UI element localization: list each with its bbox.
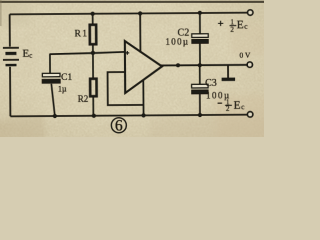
node top rail R1 — [91, 12, 95, 16]
svg-text:Ec: Ec — [234, 100, 246, 112]
terminal +1/2Ec — [248, 10, 253, 15]
capacitor C2 — [191, 13, 208, 65]
svg-text:R1: R1 — [75, 29, 89, 39]
paper background — [0, 0, 264, 137]
wire battery to bottom rail — [9, 67, 11, 116]
figure number 6 — [111, 117, 126, 134]
op-amp U1 — [125, 41, 162, 93]
junction dots — [52, 11, 203, 118]
label -1/2 Ec — [218, 98, 246, 113]
wire output 0V rail — [161, 64, 247, 67]
svg-text:0 V: 0 V — [239, 51, 251, 60]
capacitor C1 — [42, 54, 61, 116]
ground symbol on 0V rail — [222, 65, 236, 79]
terminal 0V — [247, 62, 252, 67]
paper stains — [0, 0, 270, 147]
node top rail C2 — [198, 11, 202, 15]
scan top border artifact — [0, 1, 264, 3]
battery Ec — [3, 48, 19, 66]
node bottom rail V- — [141, 113, 145, 117]
node 0V rail ink blob — [176, 63, 180, 67]
resistor R1 — [90, 14, 97, 54]
node top rail V+ — [138, 11, 142, 15]
node bottom rail C3 — [198, 113, 202, 117]
node bottom rail C1 — [53, 114, 57, 118]
svg-text:Ec: Ec — [237, 19, 249, 31]
svg-text:R2: R2 — [78, 94, 89, 104]
svg-text:C1: C1 — [61, 73, 72, 83]
terminal -1/2Ec — [247, 112, 252, 117]
node 0V rail C2-C3 — [198, 63, 202, 67]
wire V+ supply — [139, 13, 141, 52]
wire divider node horizontal — [49, 52, 125, 54]
scan left edge shadow — [0, 0, 2, 26]
wire inverting input feedback loop — [108, 72, 144, 105]
wire V- supply — [142, 80, 144, 115]
wire bottom rail — [10, 115, 247, 117]
node bottom rail R2 — [92, 114, 96, 118]
svg-text:2: 2 — [226, 105, 230, 113]
capacitor C3 — [191, 65, 208, 115]
resistor R2 — [90, 53, 97, 116]
wire top rail — [10, 13, 248, 15]
svg-text:C3: C3 — [205, 78, 217, 89]
svg-text:100µ: 100µ — [165, 36, 189, 46]
wire left branch to battery — [9, 14, 11, 46]
svg-text:2: 2 — [230, 26, 234, 34]
svg-text:6: 6 — [115, 117, 123, 134]
label +1/2 Ec — [218, 18, 248, 33]
svg-text:1µ: 1µ — [58, 84, 67, 93]
node divider junction — [91, 51, 95, 55]
